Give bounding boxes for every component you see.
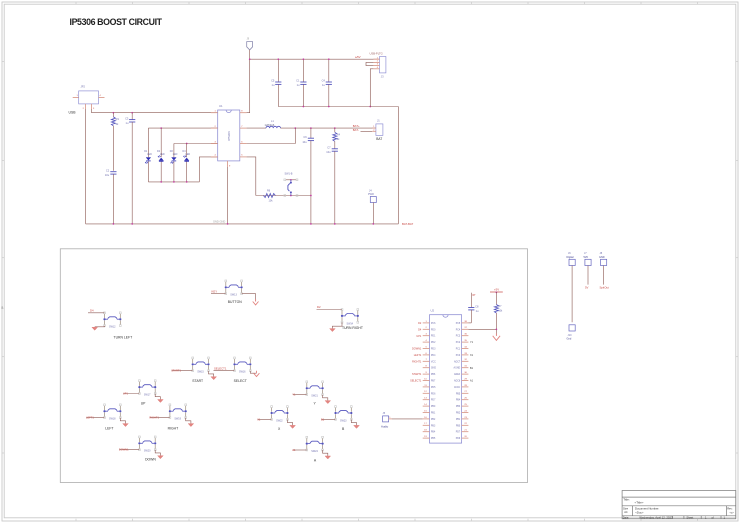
svg-text:ADC7: ADC7 — [454, 360, 461, 363]
junction — [334, 223, 336, 225]
svg-text:▸5V: ▸5V — [356, 55, 361, 59]
svg-text:SW1-B: SW1-B — [285, 173, 293, 176]
svg-text:C6: C6 — [303, 135, 307, 139]
pin 22 U2 — [462, 424, 469, 426]
connector J1 BAT — [376, 124, 383, 135]
junction — [303, 106, 305, 108]
svg-text:C5: C5 — [271, 78, 275, 82]
svg-text:U1: U1 — [219, 104, 223, 108]
svg-text:BAT-BAT: BAT-BAT — [402, 222, 414, 226]
pin 21 U2 — [462, 431, 469, 433]
svg-text:BAT: BAT — [376, 137, 382, 141]
pin 9 U2 — [423, 373, 430, 375]
pin 23 U2 — [462, 418, 469, 420]
junction — [227, 223, 229, 225]
svg-text:PB1: PB1 — [431, 413, 436, 415]
svg-text:PB2: PB2 — [456, 413, 461, 415]
wire USB vbus — [92, 109, 218, 113]
svg-text:PC3: PC3 — [456, 336, 461, 338]
junction — [334, 127, 336, 129]
junction — [294, 127, 296, 129]
op-amp U1 IP5306 body — [218, 110, 240, 161]
svg-text:PB0: PB0 — [456, 425, 461, 427]
resistor R7 — [496, 292, 498, 294]
junction — [310, 127, 312, 129]
svg-text:UP1: UP1 — [416, 335, 421, 338]
wire J3 pins23 short — [366, 62, 373, 65]
svg-text:START1: START1 — [412, 373, 422, 376]
svg-text:PB0: PB0 — [431, 406, 436, 408]
svg-text:A1: A1 — [292, 448, 296, 452]
capacitor C1 — [302, 59, 304, 82]
capacitor C6 — [310, 128, 312, 138]
svg-text:LED: LED — [160, 153, 165, 156]
capacitor C8 — [470, 293, 472, 308]
svg-text:5V0: 5V0 — [584, 256, 589, 259]
LED D2 — [160, 128, 162, 157]
svg-text:TURN RIGHT: TURN RIGHT — [342, 326, 363, 330]
capacitor C5 — [277, 59, 279, 82]
pin 8 U2 — [423, 367, 430, 369]
ground arrow — [493, 336, 500, 341]
LED D4 — [186, 144, 188, 158]
svg-text:Wednesday, April 12, 2023: Wednesday, April 12, 2023 — [639, 515, 673, 519]
svg-text:Digital: Digital — [567, 256, 574, 259]
svg-text:of: of — [712, 515, 714, 519]
svg-text:GND GND: GND GND — [213, 220, 225, 224]
svg-text:LED: LED — [186, 153, 191, 156]
svg-text:D2: D2 — [317, 305, 321, 309]
svg-text:1uH/2A6: 1uH/2A6 — [265, 124, 275, 127]
svg-text:UP: UP — [141, 402, 146, 406]
wire LED cathode rail — [148, 181, 199, 183]
switch SW21 Y — [306, 383, 308, 387]
junction — [328, 106, 330, 108]
svg-text:GND: GND — [599, 256, 605, 259]
svg-text:SW12: SW12 — [109, 326, 116, 329]
pin 29 U2 — [462, 380, 469, 382]
pin 14 U2 — [423, 405, 430, 407]
pin 20 U2 — [462, 437, 469, 439]
svg-text:PB3: PB3 — [431, 425, 436, 427]
capacitor C2 — [110, 171, 116, 173]
svg-text:PD6: PD6 — [431, 393, 436, 395]
connector J10 — [569, 325, 575, 331]
svg-text:PB7: PB7 — [431, 381, 436, 383]
svg-text:SELECT1: SELECT1 — [410, 380, 422, 383]
svg-text:START1: START1 — [171, 369, 181, 373]
svg-text:LEFT1: LEFT1 — [414, 354, 422, 357]
svg-text:UP1: UP1 — [123, 392, 129, 396]
LED D1 — [147, 128, 149, 157]
svg-text:RIGHT1: RIGHT1 — [412, 360, 422, 363]
svg-text:+5V: +5V — [494, 288, 499, 292]
svg-text:PB6: PB6 — [431, 374, 436, 376]
svg-text:PWR: PWR — [368, 193, 374, 196]
svg-text:ADC6: ADC6 — [454, 380, 461, 383]
svg-text:RT: RT — [473, 294, 477, 297]
pin 9 U1 — [227, 161, 229, 167]
wire LED row2 — [174, 143, 218, 145]
svg-text:PD1: PD1 — [431, 336, 436, 338]
svg-text:PB4: PB4 — [431, 432, 436, 434]
svg-text:SW13: SW13 — [230, 294, 237, 297]
svg-text:C4: C4 — [322, 78, 326, 82]
svg-text:PD6: PD6 — [456, 438, 461, 440]
junction — [496, 328, 498, 330]
pin 10 U2 — [423, 380, 430, 382]
connector J2 USB — [79, 91, 99, 104]
wire cap bottom bus — [278, 106, 398, 108]
pin 1 U1 — [211, 112, 218, 114]
svg-text:PC0: PC0 — [456, 355, 461, 357]
pin 4 U2 — [423, 341, 430, 343]
switch SW16 SELECT — [234, 359, 236, 363]
svg-text:DOWN1: DOWN1 — [119, 448, 129, 452]
power flag J9 — [247, 42, 253, 50]
switch SW23 B — [335, 407, 337, 411]
svg-text:Rev:: Rev: — [727, 506, 733, 510]
svg-text:PD5: PD5 — [431, 387, 436, 389]
pin 16 U2 — [423, 418, 430, 420]
pin 7 U2 — [423, 360, 430, 362]
svg-text:Date:: Date: — [623, 515, 629, 519]
wire pin6 up — [247, 128, 296, 143]
wire thermistor row — [256, 195, 311, 197]
junction — [131, 112, 133, 114]
svg-text:D4: D4 — [90, 308, 94, 312]
junction — [328, 58, 330, 60]
svg-text:SW15: SW15 — [197, 371, 204, 374]
switch SW22 X — [271, 407, 273, 411]
junction — [186, 181, 188, 183]
capacitor C3 — [131, 113, 133, 120]
connector J3 USB-PLTG — [380, 57, 386, 73]
op-amp U2 body — [430, 315, 462, 443]
pin 5 U2 — [423, 348, 430, 350]
svg-text:RIGHT1: RIGHT1 — [149, 416, 159, 420]
switch SW18 LEFT — [104, 406, 106, 410]
svg-text:Size: Size — [623, 506, 629, 510]
svg-text:SpkOut: SpkOut — [600, 285, 610, 289]
svg-text:DOWN1: DOWN1 — [412, 348, 422, 351]
junction — [113, 223, 115, 225]
svg-text:SW17: SW17 — [144, 394, 151, 397]
svg-text:X1: X1 — [257, 417, 261, 421]
svg-text:BUTTON: BUTTON — [228, 300, 242, 304]
svg-text:PC4: PC4 — [456, 329, 461, 331]
pin 25 U2 — [462, 405, 469, 407]
pin 35 U2 — [462, 341, 469, 343]
svg-text:LED: LED — [147, 153, 152, 156]
svg-text:LEFT: LEFT — [105, 427, 113, 431]
svg-text:USB-PLTG: USB-PLTG — [370, 51, 383, 55]
resistor R4 — [334, 128, 336, 132]
svg-text:JP2: JP2 — [81, 85, 86, 89]
svg-text:SW23: SW23 — [340, 419, 347, 422]
pin 18 U2 — [423, 431, 430, 433]
wire U1 gnd — [227, 167, 229, 224]
junction — [173, 181, 175, 183]
svg-text:C7: C7 — [327, 146, 331, 150]
pin 34 U2 — [462, 348, 469, 350]
pin 7 U1 — [240, 127, 247, 129]
wire U1 pin8 up — [247, 59, 250, 112]
pin 17 U2 — [423, 424, 430, 426]
svg-text:VCC: VCC — [431, 361, 436, 363]
pin 2 U2 — [423, 328, 430, 330]
wire J3 pin4 — [370, 69, 373, 107]
pin 5 U1 — [240, 156, 247, 158]
svg-text:SW22: SW22 — [276, 419, 283, 422]
svg-text:AGND: AGND — [454, 367, 461, 370]
pin 1 U2 — [423, 322, 430, 324]
svg-text:10u: 10u — [302, 140, 307, 144]
svg-text:B1: B1 — [321, 417, 325, 421]
pin 30 U2 — [462, 373, 469, 375]
svg-text:LED: LED — [173, 153, 178, 156]
wire pin5 right — [247, 157, 256, 196]
svg-text:A4: A4 — [624, 510, 628, 514]
svg-text:USB: USB — [69, 111, 77, 115]
svg-text:R1: R1 — [116, 117, 120, 121]
switch SW15 START — [192, 359, 194, 363]
svg-text:J10: J10 — [568, 334, 573, 337]
svg-text:<Title>: <Title> — [635, 501, 644, 505]
svg-text:PC1: PC1 — [456, 349, 461, 351]
wire LED row1 — [148, 127, 217, 129]
svg-text:IP5306: IP5306 — [227, 131, 231, 141]
pin 19 U2 — [423, 437, 430, 439]
svg-text:PB3: PB3 — [456, 406, 461, 408]
svg-text:PB5: PB5 — [431, 438, 436, 440]
wire 5V bus — [249, 50, 251, 59]
svg-text:PD7: PD7 — [456, 432, 461, 434]
pin 15 U2 — [423, 412, 430, 414]
wire audio — [392, 418, 423, 420]
pin 12 U2 — [423, 392, 430, 394]
switch SW24 A — [306, 438, 308, 442]
inductor L1 — [266, 126, 281, 128]
lower sheet box — [60, 249, 527, 483]
capacitor C4 — [328, 59, 330, 82]
svg-text:AVCC: AVCC — [454, 386, 461, 389]
junction — [372, 223, 374, 225]
capacitor C7 — [332, 148, 338, 150]
svg-text:KEY: KEY — [212, 289, 218, 293]
junction — [113, 112, 115, 114]
LED D3 — [173, 144, 175, 158]
junction — [369, 106, 371, 108]
pin 31 U2 — [462, 367, 469, 369]
svg-text:PC2: PC2 — [456, 342, 461, 344]
svg-text:5V: 5V — [585, 285, 589, 289]
svg-text:C8: C8 — [475, 304, 479, 308]
svg-text:<c>: <c> — [730, 511, 735, 515]
pin 13 U2 — [423, 399, 430, 401]
svg-text:RIGHT: RIGHT — [168, 427, 179, 431]
svg-text:IP5306 BOOST CIRCUIT: IP5306 BOOST CIRCUIT — [70, 17, 163, 27]
switch SW13 BUTTON — [225, 282, 227, 286]
pin 32 U2 — [462, 360, 469, 362]
pin 4 U1 — [211, 156, 218, 158]
svg-text:START: START — [192, 379, 203, 383]
junction — [290, 195, 292, 197]
svg-text:SW16: SW16 — [239, 371, 246, 374]
switch SW12 TURN LEFT — [104, 314, 106, 318]
pin 3 U1 — [211, 143, 218, 145]
svg-text:SELECT1: SELECT1 — [214, 366, 227, 370]
svg-text:PB2: PB2 — [431, 419, 436, 421]
junction — [310, 223, 312, 225]
svg-text:10u: 10u — [326, 150, 331, 154]
pin 38 U2 — [462, 322, 469, 324]
junction — [310, 195, 312, 197]
svg-text:PD2: PD2 — [431, 342, 436, 344]
resistor R1 — [112, 113, 114, 117]
junction — [160, 127, 162, 129]
wire USB gnd down — [85, 109, 87, 224]
svg-text:SELECT: SELECT — [234, 379, 247, 383]
svg-text:Audio: Audio — [381, 424, 389, 428]
svg-text:PB5: PB5 — [456, 393, 461, 395]
svg-text:TURN LEFT: TURN LEFT — [114, 336, 133, 340]
svg-text:AREF: AREF — [454, 373, 461, 376]
svg-text:LEFT1: LEFT1 — [86, 416, 94, 420]
svg-text:C1: C1 — [296, 78, 300, 82]
svg-text:Gnd: Gnd — [567, 337, 572, 340]
junction — [186, 143, 188, 145]
pin 37 U2 — [462, 328, 469, 330]
svg-text:PD0: PD0 — [431, 329, 436, 331]
svg-text:GND: GND — [431, 368, 436, 370]
svg-text:10u: 10u — [105, 173, 110, 177]
pin 33 U2 — [462, 354, 469, 356]
svg-text:PD3: PD3 — [431, 349, 436, 351]
svg-text:Title:: Title: — [623, 498, 630, 502]
title block — [622, 491, 736, 519]
junction — [303, 58, 305, 60]
pin 36 U2 — [462, 335, 469, 337]
wire bottom rail — [86, 223, 399, 225]
pin 24 U2 — [462, 412, 469, 414]
svg-text:SW24: SW24 — [311, 450, 318, 453]
junction — [249, 58, 251, 60]
switch SW14 TURN RIGHT — [341, 310, 343, 314]
svg-text:SW20: SW20 — [144, 450, 151, 453]
svg-text:PD4: PD4 — [431, 355, 436, 357]
junction — [131, 223, 133, 225]
pin 11 U2 — [423, 386, 430, 388]
wire right drop — [397, 107, 399, 224]
svg-text:Sheet: Sheet — [686, 515, 693, 519]
pin 8 U1 — [240, 112, 247, 114]
wire L1 out — [281, 127, 376, 129]
switch SW19 RIGHT — [169, 406, 171, 410]
switch SW20 DOWN — [138, 438, 140, 442]
pin 26 U2 — [462, 399, 469, 401]
svg-text:C3: C3 — [125, 116, 129, 120]
svg-text:SW18: SW18 — [109, 418, 116, 421]
pin 27 U2 — [462, 392, 469, 394]
svg-text:PB4: PB4 — [456, 400, 461, 402]
svg-text:PD7: PD7 — [431, 400, 436, 402]
pin 2 U1 — [211, 127, 218, 129]
wire U1 pin7 — [247, 127, 266, 129]
wire U2 pin37 — [468, 328, 496, 330]
svg-text:Y1: Y1 — [292, 393, 296, 397]
svg-text:BAT-: BAT- — [353, 128, 359, 132]
wire pin4 drop — [199, 157, 217, 182]
pin 6 U1 — [240, 143, 247, 145]
svg-text:C2: C2 — [106, 169, 110, 173]
resistor R6 — [263, 194, 275, 198]
svg-text:DOWN: DOWN — [145, 458, 156, 462]
pin 6 U2 — [423, 354, 430, 356]
svg-text:SW19: SW19 — [174, 418, 181, 421]
junction — [160, 181, 162, 183]
pin 3 U2 — [423, 335, 430, 337]
svg-text:SW21: SW21 — [311, 395, 318, 398]
svg-text:PC6: PC6 — [431, 323, 436, 325]
svg-text:U2: U2 — [431, 309, 435, 313]
switch SW17 UP — [138, 382, 140, 386]
svg-text:PC5: PC5 — [456, 323, 461, 325]
junction — [277, 58, 279, 60]
pin 28 U2 — [462, 386, 469, 388]
svg-text:<Doc>: <Doc> — [635, 511, 644, 515]
svg-text:B: B — [1, 306, 3, 310]
svg-text:PB1: PB1 — [456, 419, 461, 421]
